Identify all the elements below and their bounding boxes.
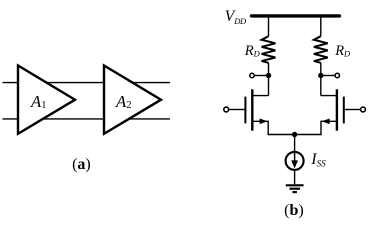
gate input circle M2	[361, 107, 366, 112]
wire drain to transistor M1	[252, 95, 268, 97]
resistor RD (right)	[314, 36, 328, 63]
ground	[286, 184, 304, 186]
current source ISS	[286, 152, 304, 170]
node X junction dot (left drain)	[266, 73, 271, 78]
wire right resistor to drain node	[320, 63, 322, 96]
output terminal wire (right)	[321, 75, 335, 77]
node Y junction dot (right drain)	[318, 73, 323, 78]
wire rail to left resistor	[268, 16, 270, 36]
svg-text:(b): (b)	[284, 202, 304, 219]
output terminal circle (left)	[250, 73, 254, 77]
transistor M2 channel bar	[336, 89, 338, 130]
output terminal circle (right)	[335, 73, 339, 77]
wire top input/output line (figure a)	[3, 82, 171, 84]
wire source M2 with arrow	[295, 121, 337, 134]
wire bottom input/output line (figure a)	[3, 118, 171, 120]
wire left resistor to drain node	[268, 63, 270, 96]
node P junction dot (common source)	[292, 132, 297, 137]
wire current source to ground	[294, 170, 296, 184]
wire tail node to current source	[294, 135, 296, 152]
wire gate lead M2	[345, 109, 361, 111]
transistor M2 gate bar	[343, 97, 345, 124]
VDD rail	[252, 14, 340, 17]
wire drain to transistor M2	[321, 95, 337, 97]
transistor M1 gate bar	[244, 97, 246, 124]
wire source M1 with arrow	[252, 121, 294, 134]
transistor M1 channel bar	[251, 89, 253, 130]
op-amp A2	[104, 66, 161, 134]
wire rail to right resistor	[320, 16, 322, 36]
op-amp A1	[18, 66, 75, 134]
resistor RD (left)	[262, 36, 276, 63]
wire gate lead M1	[229, 109, 245, 111]
gate input circle M1	[224, 107, 229, 112]
output terminal wire (left)	[255, 75, 269, 77]
svg-text:(a): (a)	[72, 156, 91, 173]
